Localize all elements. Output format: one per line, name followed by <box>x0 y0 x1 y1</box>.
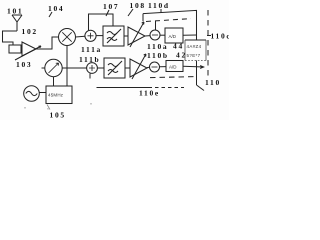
leader 107 <box>106 10 109 16</box>
svg-text:103: 103 <box>16 60 32 69</box>
wire amp 108 to adder <box>145 35 150 37</box>
wire 111a to filter 107 <box>96 35 103 37</box>
filter row2 <box>104 58 125 78</box>
svg-text:107: 107 <box>103 2 119 11</box>
wire mixer 104 to mixer 111a <box>76 35 85 38</box>
svg-text:101: 101 <box>7 7 23 16</box>
leader 110d <box>160 9 162 13</box>
wire A/D out row2 with arrow <box>183 65 204 68</box>
svg-text:5?E*7: 5?E*7 <box>187 53 201 58</box>
svg-text:105: 105 <box>50 111 66 120</box>
svg-text:110: 110 <box>205 78 221 87</box>
svg-text:102: 102 <box>22 27 38 36</box>
long line bottom <box>97 87 153 89</box>
wire adder to A/D <box>160 34 165 36</box>
svg-text:110e: 110e <box>139 89 160 98</box>
amplifier 108 gain arrow <box>130 22 144 47</box>
feedback wire row1 <box>143 10 197 40</box>
leader 110 <box>197 85 205 91</box>
A/D converter row2 <box>166 61 183 72</box>
wire VCO to mixer 111b <box>62 67 86 69</box>
wire amp row2 to adder row2 <box>147 66 149 68</box>
arrowhead row2 output <box>200 65 205 69</box>
amplifier row2 gain arrow <box>132 54 146 79</box>
svg-text:104: 104 <box>48 4 64 13</box>
leader 110c <box>207 35 211 37</box>
amplifier 108 triangle <box>128 27 145 45</box>
svg-text:110a: 110a <box>147 42 168 51</box>
feedback stub to adder row1 <box>155 21 157 30</box>
filter 107 <box>103 26 124 46</box>
box 102 duplexer <box>9 45 21 53</box>
wire filter row2 to amp row2 <box>125 67 130 69</box>
noise dots <box>24 103 92 110</box>
svg-text:45MHz: 45MHz <box>48 93 64 98</box>
stub below 111b <box>89 73 91 78</box>
wire VCO left stub <box>42 67 45 69</box>
dashed line bottom row2 <box>150 77 196 78</box>
svg-text:44: 44 <box>173 42 184 51</box>
svg-text:110d: 110d <box>148 1 170 10</box>
reference oscillator <box>24 86 40 102</box>
wire top bridge over 111a <box>89 14 114 30</box>
svg-text:110c: 110c <box>211 32 230 41</box>
adder row2 circle <box>150 62 160 72</box>
svg-text:108: 108 <box>130 1 146 10</box>
control box <box>185 40 206 61</box>
wire control box down leader <box>196 61 198 86</box>
svg-text:111a: 111a <box>81 45 102 54</box>
amplifier 103 triangle <box>22 42 36 56</box>
leader 105 <box>47 105 50 110</box>
A/D converter row1 <box>165 28 183 43</box>
mixer 104 <box>59 29 76 46</box>
wire 111b to filter row2 <box>97 67 104 69</box>
dashed boundary top <box>146 19 191 22</box>
box 45MHz <box>46 86 72 104</box>
adder 110a circle <box>150 30 160 40</box>
svg-text:4A#Z4: 4A#Z4 <box>187 44 202 49</box>
mixer 111a <box>85 30 96 41</box>
wire amp 103 to mixer 104 <box>36 37 58 49</box>
antenna 101 <box>12 15 22 31</box>
bottom line dashed tail <box>155 87 184 89</box>
mixer 111b <box>87 63 98 74</box>
stub VCO down <box>53 77 55 86</box>
svg-text:A/D: A/D <box>169 34 177 39</box>
dashed boundary right 110c <box>207 10 209 78</box>
leader 104 <box>49 12 52 17</box>
amplifier row2 triangle <box>130 59 147 77</box>
amplifier 103 gain arrow <box>15 46 41 60</box>
wire mixer 104 LO vertical <box>66 46 68 87</box>
oscillator VCO circle <box>45 59 62 76</box>
leader 108 <box>128 9 133 16</box>
wire osc to box <box>39 92 46 94</box>
wire filter 107 to amp 108 <box>124 35 128 37</box>
svg-text:110b: 110b <box>147 51 169 60</box>
svg-text:A/D: A/D <box>169 65 177 70</box>
wire antenna to box 102 <box>3 31 18 45</box>
wire A/D out row1 <box>183 34 197 36</box>
wire adder row2 to A/D row2 <box>160 66 166 68</box>
